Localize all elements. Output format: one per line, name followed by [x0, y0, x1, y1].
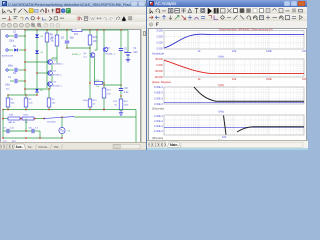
svg-text:f (Hz): f (Hz) [218, 83, 225, 87]
capacitor C6 [65, 41, 69, 43]
wire [18, 69, 25, 71]
node junction [103, 84, 105, 86]
node junction [2, 137, 4, 139]
svg-text:Aux..: Aux.. [16, 145, 24, 149]
wire [56, 30, 58, 35]
node junction [66, 47, 68, 49]
wire to R8 column [52, 57, 57, 59]
capacitor C8 [119, 89, 123, 91]
node junction [43, 118, 45, 120]
wire R9 down [46, 42, 48, 88]
svg-text:BCW6L_C: BCW6L_C [106, 53, 116, 55]
wire [18, 80, 25, 82]
plot4 grid [174, 115, 176, 135]
wire [49, 86, 51, 89]
svg-text:6.00E-3: 6.00E-3 [154, 86, 163, 89]
wire top rail left [25, 29, 72, 31]
node junction [103, 82, 105, 84]
wire bottom rail [3, 137, 62, 139]
wire rail B right [74, 116, 136, 118]
wire C8 down [120, 91, 122, 96]
node junction [34, 118, 36, 120]
ground GND2 [119, 111, 123, 115]
wire [9, 35, 14, 37]
transistor Q4 [90, 53, 95, 58]
wire top rail right [82, 29, 128, 31]
svg-text:0.000: 0.000 [157, 64, 164, 67]
node junction [120, 29, 122, 31]
svg-text:0.00E-3: 0.00E-3 [154, 103, 163, 106]
node junction [25, 109, 27, 111]
delay curve [194, 87, 304, 101]
wire C9 mid [9, 130, 26, 132]
wire [7, 107, 9, 110]
wire Q4 base column down [89, 52, 91, 99]
svg-text:100: 100 [222, 135, 227, 139]
transistor Q5 [48, 82, 53, 87]
svg-text:2.500: 2.500 [157, 36, 164, 39]
wire [48, 89, 50, 98]
wire [25, 107, 27, 110]
right AC Analysis window [146, 0, 307, 150]
svg-text:BC836_C: BC836_C [72, 54, 82, 56]
switch SW1 [44, 117, 74, 119]
svg-text:BC846B_C: BC846B_C [53, 63, 64, 65]
input terminal IN2 [6, 49, 9, 52]
left schematic editor window [0, 0, 146, 150]
node junction [61, 137, 63, 139]
resistor R5 [47, 98, 51, 107]
resistor R1 [6, 98, 10, 107]
svg-text:2.2u: 2.2u [124, 92, 129, 94]
svg-text:4.00E-3: 4.00E-3 [154, 92, 163, 95]
input terminal IN1 [6, 35, 9, 38]
node junction [103, 29, 105, 31]
svg-text:100u: 100u [9, 41, 15, 43]
wire [24, 91, 26, 95]
wire [7, 95, 9, 98]
svg-text:0.000: 0.000 [157, 42, 164, 45]
svg-text:(Seconds): (Seconds) [152, 106, 164, 110]
wire [36, 92, 38, 95]
node junction [25, 130, 27, 132]
wire Q2-Q3 cascade [51, 64, 53, 71]
node junction [2, 118, 4, 120]
svg-text:J6F..: J6F.. [54, 145, 61, 149]
wire [120, 110, 122, 111]
wire Q4 collector column [96, 31, 98, 50]
svg-text:phase, Degrees: phase, Degrees [152, 80, 172, 84]
switch pole [44, 118, 45, 119]
node junction [103, 109, 105, 111]
resistor R3 [24, 98, 28, 107]
svg-text:45.000: 45.000 [155, 58, 163, 61]
wire [66, 44, 68, 48]
svg-text:10k: 10k [232, 49, 237, 53]
transistor Q3 [48, 71, 53, 76]
wire zener column [36, 30, 38, 88]
svg-text:BC856_C: BC856_C [53, 85, 63, 87]
plot3 grid [174, 87, 176, 104]
wire rail B seg1 [3, 118, 8, 120]
plot1 grid [174, 31, 176, 49]
svg-text:f (Hz): f (Hz) [218, 54, 225, 58]
wire Q1 down [103, 52, 105, 83]
wire Q2 base tie [25, 61, 48, 63]
wire [10, 80, 14, 82]
capacitor C5 [119, 49, 123, 51]
node junction [25, 94, 27, 96]
resistor R15 [88, 99, 92, 107]
svg-text:100k: 100k [266, 49, 272, 53]
node junction [48, 88, 50, 90]
node junction [24, 49, 26, 51]
wire Q4 collector jog [95, 49, 98, 51]
resistor R4 [8, 117, 20, 120]
wire [103, 82, 105, 84]
node junction [24, 69, 26, 71]
gain curve [164, 34, 304, 48]
wire [20, 118, 22, 120]
node junction [24, 80, 26, 82]
wire lower rail A [3, 109, 136, 111]
wire [9, 49, 14, 51]
wire C5 top [120, 30, 122, 48]
node junction [24, 29, 26, 31]
svg-text:100k: 100k [266, 77, 272, 81]
svg-text:Main..: Main.. [170, 143, 179, 147]
node junction [24, 61, 26, 63]
svg-text:BZX84C2W: BZX84C2W [2, 56, 13, 58]
node junction [120, 95, 122, 97]
svg-text:BC856_C: BC856_C [53, 74, 63, 76]
zener diode D8 [35, 89, 39, 92]
node junction [24, 35, 26, 37]
wire [89, 30, 91, 35]
wire rail B seg2 [34, 118, 44, 120]
wire [19, 49, 26, 51]
transistor Q1 [103, 47, 108, 52]
source V4 [59, 127, 65, 133]
node junction [56, 29, 58, 31]
svg-text:R7B: R7B [24, 115, 29, 117]
svg-text:Radiomikrofon6_5RFB-B6Q_Elektr: Radiomikrofon6_5RFB-B6Q_Elektroacoustic … [219, 28, 273, 31]
wire Q3 base tie [37, 72, 48, 74]
wire [46, 30, 48, 33]
wire drop x40 [39, 131, 41, 138]
node junction [48, 109, 50, 111]
plot2 grid [174, 59, 176, 77]
wire right vertical upper [135, 110, 137, 118]
node junction [89, 47, 91, 49]
svg-text:AA1.3k: AA1.3k [9, 121, 17, 124]
wire Q2 collector stub [51, 58, 53, 60]
input terminal IN3 [6, 69, 9, 72]
svg-text:-2.00E-4: -2.00E-4 [153, 130, 163, 133]
node junction [25, 137, 27, 139]
wire right edge down [135, 117, 137, 142]
capacitor C9 [7, 129, 9, 133]
svg-text:-45.000: -45.000 [154, 70, 163, 73]
svg-text:-90.000: -90.000 [154, 76, 163, 79]
plot3 zero line [164, 102, 304, 104]
wire [89, 107, 91, 110]
wire [9, 69, 14, 71]
wire R14 down [103, 98, 105, 110]
node junction [24, 88, 26, 90]
wire V4 top [61, 117, 63, 127]
node junction [7, 94, 9, 96]
svg-text:Amplitude: Amplitude [152, 52, 164, 56]
plot4 spike [224, 116, 227, 135]
capacitor C4 [15, 68, 17, 72]
wire drop x26 [25, 119, 27, 132]
wire to C8 column [104, 84, 121, 86]
svg-text:SwitchA1: SwitchA1 [47, 120, 57, 123]
wire V1 top [127, 30, 129, 52]
wire left spine [24, 30, 26, 91]
node junction [103, 109, 105, 111]
capacitor C30 [32, 129, 34, 133]
wire [26, 130, 32, 132]
node junction [96, 29, 98, 31]
plot4 recovery curve [237, 127, 304, 132]
zener diode D2 [35, 34, 39, 37]
node junction [36, 29, 38, 31]
resistor R8 [55, 35, 59, 46]
svg-text:f (Hz): f (Hz) [218, 110, 225, 114]
capacitor C3 [15, 34, 17, 38]
wire C5 down [120, 51, 122, 88]
node junction [20, 118, 22, 120]
wire left edge vertical [2, 110, 4, 139]
node junction [2, 109, 4, 111]
svg-text:2.00E-3: 2.00E-3 [154, 97, 163, 100]
wire mid rail [25, 88, 50, 90]
wire Q4 emitter down [94, 57, 96, 83]
resistor R9 [45, 33, 49, 42]
ground GND1 [126, 58, 130, 62]
wire R8 down [56, 46, 58, 63]
svg-text:Rohde..: Rohde.. [39, 145, 50, 149]
svg-text:6_C: 6_C [84, 56, 88, 58]
svg-text:2.00E-4: 2.00E-4 [154, 120, 163, 123]
svg-text:10k: 10k [232, 77, 237, 81]
svg-text:4.00E-4: 4.00E-4 [154, 115, 163, 118]
node junction [66, 29, 68, 31]
wire to R14 [103, 83, 105, 88]
wire C9 left [3, 130, 7, 132]
node junction [36, 72, 38, 74]
svg-text:0.00E-4: 0.00E-4 [154, 125, 163, 128]
wire V4 bottom [61, 134, 63, 138]
node junction [89, 82, 91, 84]
wire [66, 30, 68, 40]
wire to R16 [120, 96, 122, 99]
node junction [36, 94, 38, 96]
phase curve [164, 60, 304, 73]
resistor R13 [95, 82, 103, 85]
node junction [39, 137, 41, 139]
resistor R10 [72, 29, 82, 32]
svg-text:5.000: 5.000 [157, 30, 164, 33]
node junction [89, 109, 91, 111]
wire [25, 95, 27, 98]
wire C30 right [34, 130, 40, 132]
plot4 zero line [164, 126, 304, 128]
wire bias rail [8, 94, 37, 96]
svg-text:Tol..: Tol.. [28, 145, 34, 149]
resistor R14 [102, 88, 106, 98]
wire [18, 35, 25, 37]
wire C6 node across [67, 47, 90, 49]
wire [36, 88, 38, 89]
wire [48, 107, 50, 110]
node junction [120, 84, 122, 86]
svg-text:24V: 24V [133, 52, 138, 54]
node junction [46, 29, 48, 31]
resistor R12 [88, 35, 92, 45]
transistor Q2 [48, 60, 53, 65]
svg-text:R1B: R1B [9, 115, 14, 117]
wire R12 down [89, 45, 91, 52]
zener diode D3 [35, 50, 39, 53]
wire Q1 top [103, 30, 105, 47]
svg-text:-2.500: -2.500 [156, 48, 164, 51]
svg-text:680n: 680n [8, 65, 14, 67]
wire Q3-Q5 cascade [51, 75, 53, 82]
wire V1 bottom [127, 56, 129, 58]
node junction [61, 116, 63, 118]
capacitor C2 [15, 79, 17, 83]
node junction [7, 109, 9, 111]
battery V1 [125, 53, 132, 55]
resistor R16 [119, 99, 123, 110]
resistor R6 [22, 117, 34, 120]
diode D1 [14, 48, 17, 51]
svg-text:100n: 100n [5, 85, 11, 87]
node junction [89, 29, 91, 31]
